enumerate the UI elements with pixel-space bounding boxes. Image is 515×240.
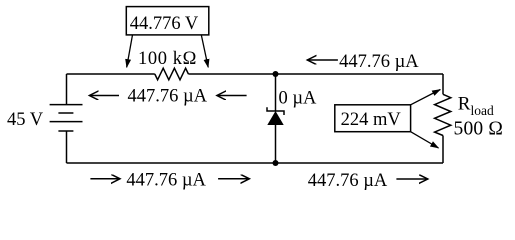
node junction dot bottom [273,160,279,166]
wire right rail top [442,74,444,94]
zener diode D1 cathode bar [267,107,284,115]
current arrow top-right [307,59,338,61]
callout arrow left from 44.776 V box [127,35,133,67]
svg-text:447.76 µA: 447.76 µA [128,87,208,107]
resistor R1 100 kOhm zigzag [155,68,189,80]
wire left rail top [66,74,68,105]
current arrow top-left second [217,95,247,97]
callout arrow top from 224 mV box [411,90,441,105]
svg-text:100 kΩ: 100 kΩ [138,49,197,69]
callout arrow right from 44.776 V box [201,35,208,67]
zener diode D1 triangle [267,111,283,125]
svg-text:45 V: 45 V [7,110,44,130]
zener diode D1 wire bottom [275,125,277,163]
resistor Rload zigzag [435,94,451,135]
wire left rail bottom [66,131,68,163]
current arrow bottom-right [396,178,427,180]
battery B1 45 V plates [50,104,83,106]
svg-text:447.76 µA: 447.76 µA [308,171,388,191]
current arrow bottom-left first [90,178,120,180]
current arrow top-left first [89,95,119,97]
svg-text:44.776 V: 44.776 V [130,14,199,34]
wire top right segment [188,73,443,75]
wire bottom [67,162,444,164]
zener diode D1 wire top [275,74,277,111]
svg-text:447.76 µA: 447.76 µA [339,52,419,72]
node junction dot top [273,71,279,77]
callout box 44.776 V [126,7,209,35]
svg-text:0 µA: 0 µA [279,89,318,109]
wire right rail bottom [442,136,444,164]
current arrow bottom-left second [218,178,249,180]
svg-text:447.76 µA: 447.76 µA [126,170,206,190]
callout arrow bottom from 224 mV box [411,132,439,148]
svg-text:224 mV: 224 mV [341,110,402,130]
svg-text:500 Ω: 500 Ω [454,119,504,140]
callout box 224 mV [335,105,411,132]
wire top left segment [67,73,155,75]
